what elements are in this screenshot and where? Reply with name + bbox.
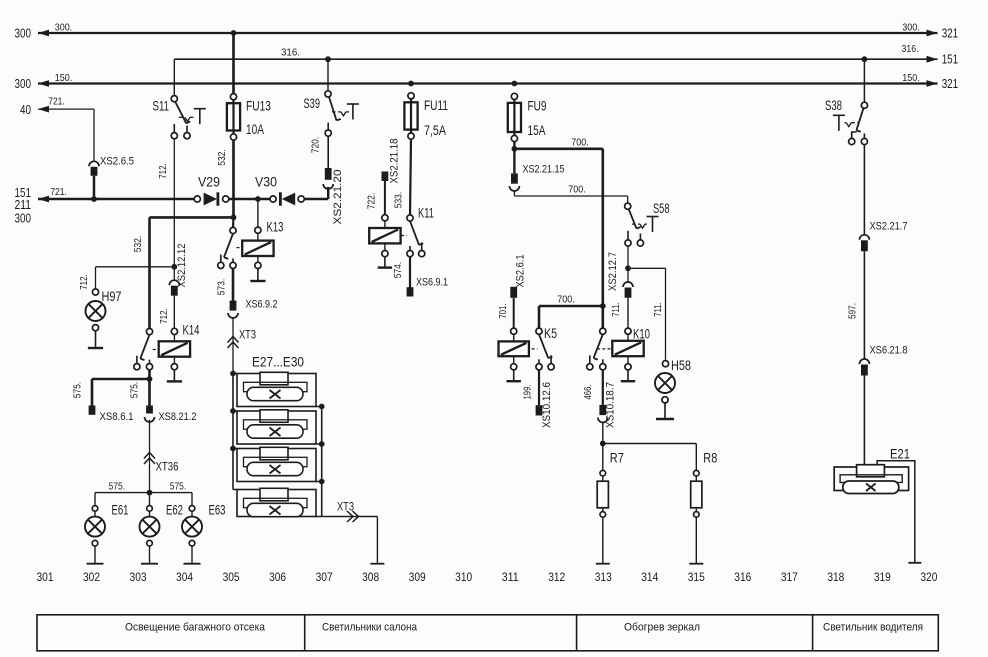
- switch S39 actuator link: [332, 112, 349, 116]
- connector XS2.21.7 socket: [859, 235, 869, 240]
- label XS2.21.7: [870, 221, 908, 233]
- connector XS2.6.1 pin: [510, 287, 517, 298]
- wire label 199.: [522, 385, 534, 400]
- svg-text:532.: 532.: [132, 236, 144, 253]
- ground K5: [507, 370, 521, 381]
- arrow left net 300: [38, 30, 49, 37]
- wire 711 to XS2.12.7: [627, 268, 629, 282]
- wire S11 stub to 316 bus: [173, 59, 175, 95]
- node junction 712/H97: [171, 264, 177, 270]
- ground K10: [621, 370, 635, 381]
- svg-text:300.: 300.: [55, 21, 73, 33]
- lamp unit E21: [834, 465, 908, 494]
- wire 722: [384, 181, 386, 215]
- switch S58 actuator T: [647, 217, 659, 233]
- arrow left net 151/211/300: [38, 196, 49, 203]
- label K5: [544, 326, 557, 341]
- switch S58: [625, 203, 644, 246]
- connector XS8.21.2 pin: [146, 406, 153, 414]
- arrow right net 151: [927, 56, 938, 63]
- wire K13 common feed: [232, 217, 235, 227]
- svg-text:K14: K14: [183, 323, 200, 338]
- svg-text:306: 306: [269, 570, 286, 584]
- wire label 466.: [582, 385, 594, 400]
- wire 711 to K10 coil: [627, 298, 629, 328]
- wire K11 coil bottom: [382, 244, 388, 257]
- connector XS6.9.2 socket: [228, 313, 238, 318]
- svg-text:XT3: XT3: [239, 329, 256, 341]
- wire 532 branch left: [150, 216, 234, 219]
- svg-text:XT36: XT36: [156, 462, 179, 474]
- svg-text:573.: 573.: [216, 279, 228, 296]
- net label 321 bottom right: [942, 76, 959, 91]
- wire 532 from 300 bus: [232, 33, 235, 94]
- svg-text:575.: 575.: [109, 481, 126, 493]
- node path number 304: [176, 570, 193, 584]
- wire 575 lamp row: [95, 492, 192, 494]
- svg-text:300: 300: [15, 76, 32, 91]
- wire to R8: [603, 444, 697, 471]
- svg-text:315: 315: [688, 570, 705, 584]
- terminal bar E62: [141, 563, 158, 565]
- svg-text:E61: E61: [112, 503, 129, 518]
- switch S38: [849, 102, 868, 144]
- node path number 309: [409, 570, 426, 584]
- wire 466: [602, 370, 604, 405]
- relay K11 coil: [369, 228, 400, 243]
- node path number 306: [269, 570, 286, 584]
- wire 597: [863, 251, 865, 359]
- switch S58 actuator link: [632, 224, 647, 228]
- wire 575 left branch: [92, 379, 150, 406]
- terminal bar E61: [87, 563, 104, 565]
- wire 700 to K10: [601, 306, 604, 328]
- wire 573: [232, 269, 235, 302]
- svg-text:199.: 199.: [522, 385, 534, 400]
- connector XS2.21.7 pin: [861, 240, 868, 251]
- label XS6.21.8: [870, 345, 908, 357]
- wire 532 below fuse: [232, 140, 235, 217]
- lamp E61: [85, 493, 105, 564]
- net label 300 bottom: [15, 211, 32, 226]
- label R8: [703, 451, 717, 466]
- wire S38 stub: [863, 59, 865, 102]
- terminal bar E63: [184, 563, 201, 565]
- wire 711 branch to H58: [628, 268, 666, 360]
- joint connector XT3 (upper): [228, 337, 239, 349]
- node junction left bus u3: [230, 446, 236, 452]
- wire label 700. first: [571, 136, 589, 148]
- svg-text:303: 303: [130, 570, 147, 584]
- node path number 310: [455, 570, 472, 584]
- node junction 711: [625, 265, 631, 271]
- label XS8.21.2: [159, 411, 197, 423]
- net label 211: [15, 197, 32, 212]
- svg-text:R7: R7: [610, 451, 624, 466]
- svg-text:300: 300: [15, 211, 32, 226]
- wire 574: [409, 257, 411, 288]
- fuse FU11: [404, 93, 417, 139]
- terminal bar R8: [689, 563, 703, 565]
- ground K14: [167, 370, 182, 382]
- svg-text:305: 305: [223, 570, 240, 584]
- node junction right bus u1: [319, 404, 325, 410]
- node path number 307: [316, 570, 333, 584]
- svg-text:712.: 712.: [157, 163, 169, 179]
- label FU13: [246, 98, 271, 113]
- label FU9: [528, 98, 547, 113]
- wire lamp block right bus: [321, 407, 323, 517]
- label V30: [255, 175, 277, 190]
- relay K10 contact: [587, 328, 606, 370]
- relay K13 contact: [218, 227, 236, 268]
- lamp E29 unit: [233, 447, 322, 481]
- label XT3 upper: [239, 329, 256, 341]
- connector XS2.21.20 pin: [325, 168, 332, 180]
- node path number 318: [827, 570, 844, 584]
- wire 722 pin: [382, 172, 389, 182]
- svg-text:310: 310: [455, 570, 472, 584]
- svg-text:Светильники салона: Светильники салона: [322, 622, 418, 634]
- node junction 700 lower: [600, 303, 606, 309]
- label H97: [102, 289, 122, 304]
- legend label luggage compartment lighting: [125, 622, 266, 634]
- svg-text:150.: 150.: [55, 72, 73, 84]
- svg-text:321: 321: [942, 25, 959, 40]
- svg-text:XT3: XT3: [337, 502, 354, 514]
- wire K11 coil top: [382, 215, 388, 228]
- connector XS10.18.7 socket: [598, 418, 608, 423]
- wire 712 from S11: [173, 139, 175, 267]
- wire 533: [410, 139, 411, 215]
- svg-text:FU9: FU9: [528, 98, 547, 113]
- svg-text:FU11: FU11: [424, 98, 448, 113]
- svg-text:721.: 721.: [48, 96, 65, 108]
- label H58: [671, 358, 691, 373]
- relay K14 mech link: [153, 349, 159, 351]
- wire label 711. right: [652, 302, 664, 317]
- connector XS2.21.20 socket: [323, 184, 333, 189]
- svg-text:E62: E62: [166, 503, 183, 518]
- fuse FU9: [508, 93, 521, 141]
- connector XS2.21.15 socket: [509, 186, 519, 191]
- svg-text:XS2.12.7: XS2.12.7: [607, 252, 619, 291]
- lamp E30 unit: [233, 488, 322, 516]
- svg-text:319: 319: [874, 570, 891, 584]
- legend table frame: [37, 615, 938, 651]
- svg-text:40: 40: [20, 102, 31, 117]
- net label 151 right: [942, 52, 959, 67]
- relay K13 mech link: [237, 247, 243, 249]
- joint connector XT36: [144, 453, 155, 465]
- net label 321 top right: [942, 25, 959, 40]
- svg-text:700.: 700.: [557, 294, 575, 306]
- label XT3 lower: [337, 502, 354, 514]
- arrow left net 40: [38, 106, 49, 113]
- svg-text:533.: 533.: [393, 192, 405, 209]
- ground K13: [250, 269, 265, 282]
- connector XS8.21.2 socket: [145, 417, 155, 422]
- connector XS10.12.6 pin: [536, 405, 543, 415]
- diode V30: [270, 192, 304, 205]
- wire segment V29-V30: [229, 198, 275, 200]
- wire label 701.: [497, 304, 509, 319]
- node junction 721/151-line: [91, 196, 97, 202]
- svg-text:FU13: FU13: [246, 98, 271, 113]
- node path number 303: [130, 570, 147, 584]
- wire K5 coil top: [511, 328, 517, 341]
- label S39: [304, 96, 321, 111]
- wire 700 branch 2: [514, 191, 627, 204]
- connector XS6.9.2 pin: [230, 301, 237, 311]
- label XS2.21.18: [388, 139, 400, 184]
- svg-text:K13: K13: [267, 219, 284, 234]
- node junction left bus u2: [230, 408, 236, 414]
- wire label 574.: [392, 262, 404, 279]
- svg-text:XS2.21.7: XS2.21.7: [870, 221, 908, 233]
- label XS2.12.12: [176, 244, 188, 288]
- relay K14 coil: [159, 341, 190, 356]
- label S58: [653, 201, 670, 216]
- switch S39 actuator T: [347, 104, 359, 120]
- svg-text:712.: 712.: [78, 274, 90, 290]
- label XS10.18.7: [605, 382, 617, 428]
- wire net 316 bus: [174, 58, 937, 60]
- joint connector XT3 (lower): [347, 511, 359, 522]
- connector XS6.21.8 socket: [859, 359, 869, 364]
- legend label driver lamp: [823, 622, 923, 634]
- svg-text:313: 313: [595, 570, 612, 584]
- node path number 315: [688, 570, 705, 584]
- wire label 300.: [55, 21, 73, 33]
- svg-text:318: 318: [827, 570, 844, 584]
- svg-text:H58: H58: [671, 358, 691, 373]
- svg-text:E63: E63: [209, 503, 226, 518]
- wire S39 stub to 316 bus: [327, 59, 329, 91]
- node path number 314: [641, 570, 658, 584]
- svg-text:309: 309: [409, 570, 426, 584]
- wire 720 vertical to XS2.21.20: [327, 187, 329, 199]
- svg-text:311: 311: [502, 570, 519, 584]
- svg-text:711.: 711.: [652, 302, 664, 317]
- svg-text:XS2.12.12: XS2.12.12: [176, 244, 188, 288]
- svg-text:700.: 700.: [571, 136, 589, 148]
- svg-text:532.: 532.: [216, 149, 228, 166]
- lamp E63: [182, 493, 202, 564]
- wire S58 down: [627, 246, 629, 268]
- connector XS2.12.12 socket: [169, 280, 179, 285]
- wire label 300. right: [902, 21, 920, 33]
- relay K5 contact: [536, 328, 554, 370]
- relay K11 mech link: [401, 235, 407, 237]
- switch S11 actuator link: [179, 117, 194, 121]
- wire XT3 output: [322, 517, 378, 564]
- wire 575 down: [148, 379, 151, 406]
- wire label 700. third: [557, 294, 575, 306]
- wire 700 branch 3: [539, 306, 603, 328]
- svg-text:Освещение багажного отсека: Освещение багажного отсека: [125, 622, 266, 634]
- wire label 532. left branch: [132, 236, 144, 253]
- relay K10 mech link: [597, 348, 610, 350]
- label XS6.9.1: [416, 277, 448, 289]
- wire label 533.: [393, 192, 405, 209]
- switch S11 actuator T: [194, 109, 206, 125]
- label XS6.9.2: [246, 298, 278, 310]
- wire label 711. left: [610, 302, 622, 317]
- legend label cabin lights: [322, 622, 418, 634]
- connector XS2.12.7 socket: [623, 282, 633, 287]
- svg-text:XS10.12.6: XS10.12.6: [541, 382, 553, 428]
- svg-text:7,5A: 7,5A: [424, 123, 446, 138]
- wire 199: [538, 370, 540, 405]
- node junction 316-bus / S38: [862, 56, 868, 62]
- svg-text:K5: K5: [544, 326, 557, 341]
- wire K10 coil top: [625, 328, 631, 341]
- node junction 316-bus / S39: [325, 56, 331, 62]
- node path number 316: [734, 570, 751, 584]
- wire K14 coil top: [171, 328, 177, 341]
- label XS2.21.20: [332, 170, 344, 225]
- arrow right net 321 top: [927, 30, 938, 37]
- wire label 712. at H97: [78, 274, 90, 290]
- wire to XT3: [232, 317, 234, 373]
- svg-text:H97: H97: [102, 289, 122, 304]
- ground H58: [656, 403, 674, 419]
- wire K10 coil bottom: [625, 356, 631, 370]
- label XS10.12.6: [541, 382, 553, 428]
- net label 300 left: [15, 25, 32, 40]
- value label 7,5A: [424, 123, 446, 138]
- node junction 575: [147, 376, 153, 382]
- wire label 722.: [365, 193, 377, 210]
- svg-text:S38: S38: [825, 98, 842, 113]
- legend label mirror heating: [624, 622, 700, 634]
- fuse FU13: [227, 94, 240, 140]
- terminal bar R7: [596, 563, 610, 565]
- svg-text:712.: 712.: [158, 308, 170, 324]
- node path number 301: [37, 570, 54, 584]
- label XS2.6.1: [514, 255, 526, 288]
- wire label 575. mid: [129, 382, 141, 399]
- label K11: [418, 206, 434, 221]
- wire label 720.: [310, 137, 322, 154]
- wire segment V30 to corner: [304, 198, 328, 200]
- wire K13 coil feed: [255, 199, 261, 240]
- label E27...E30: [252, 354, 304, 369]
- svg-text:Обогрев зеркал: Обогрев зеркал: [624, 622, 700, 634]
- svg-text:S11: S11: [153, 99, 170, 114]
- node path number 319: [874, 570, 891, 584]
- connector XS6.21.8 pin: [861, 365, 868, 376]
- wire 597 upper: [863, 145, 865, 235]
- label E63: [209, 503, 226, 518]
- svg-text:466.: 466.: [582, 385, 594, 400]
- svg-text:K11: K11: [418, 206, 434, 221]
- wire net 150 bus: [38, 82, 938, 84]
- node path number 312: [548, 570, 565, 584]
- node junction right bus u3: [319, 479, 325, 485]
- label XS2.21.15: [523, 164, 565, 176]
- svg-text:S58: S58: [653, 201, 670, 216]
- resistor R8: [691, 470, 702, 563]
- svg-text:312: 312: [548, 570, 565, 584]
- connector XS8.6.1 pin: [89, 406, 96, 415]
- wire FU9 to junction: [513, 142, 515, 174]
- svg-text:XS8.21.2: XS8.21.2: [159, 411, 197, 423]
- lamp H58: [655, 361, 675, 403]
- resistor R7: [597, 470, 608, 563]
- wire 721 thick to 151-line: [93, 176, 96, 199]
- wire 40-line: [38, 108, 94, 110]
- svg-text:V29: V29: [198, 175, 220, 190]
- lamp H97: [86, 289, 106, 331]
- wire 721 drop from 40-line: [93, 109, 95, 161]
- svg-text:XS6.9.1: XS6.9.1: [416, 277, 448, 289]
- wire 720 pin to S39: [327, 136, 329, 168]
- wire label 316. right: [902, 43, 919, 55]
- value label 10A: [246, 122, 264, 137]
- wire 701: [513, 298, 515, 328]
- node path number 302: [83, 570, 100, 584]
- svg-text:R8: R8: [703, 451, 717, 466]
- node junction 150-bus / FU9: [512, 81, 518, 87]
- svg-text:E27...E30: E27...E30: [252, 354, 304, 369]
- terminal bar 308: [370, 563, 384, 565]
- connector XS2.6.5 pin: [91, 167, 98, 176]
- label S38: [825, 98, 842, 113]
- svg-text:307: 307: [316, 570, 333, 584]
- relay K13 coil: [242, 241, 273, 256]
- arrow left net 300 (150 line): [38, 80, 49, 87]
- lamp E27 unit: [233, 372, 322, 406]
- net label 300 left lower: [15, 76, 32, 91]
- label XS2.6.5: [100, 155, 134, 167]
- node junction 700: [512, 146, 518, 152]
- wire label 532. upper: [216, 149, 228, 166]
- svg-text:308: 308: [362, 570, 379, 584]
- wire 721 segment left: [38, 198, 197, 200]
- switch S39: [325, 91, 341, 136]
- wire label 575. row left: [109, 481, 126, 493]
- lamp E28 unit: [233, 410, 322, 444]
- connector XS2.21.15 pin: [511, 173, 518, 183]
- wire K13 coil bottom: [255, 256, 261, 269]
- svg-text:575.: 575.: [129, 382, 141, 399]
- connector XS2.12.7 pin: [625, 288, 632, 298]
- svg-text:575.: 575.: [71, 382, 83, 399]
- node junction R7/R8: [600, 441, 606, 447]
- node junction K13 coil branch: [255, 196, 261, 202]
- svg-text:E21: E21: [890, 447, 910, 462]
- wire label 721. upper: [48, 96, 65, 108]
- svg-text:711.: 711.: [610, 302, 622, 317]
- node path number 311: [502, 570, 519, 584]
- net label 40: [20, 102, 31, 117]
- node path number 313: [595, 570, 612, 584]
- connector XS10.18.7 pin: [599, 405, 606, 415]
- wire net 300 top bus: [38, 32, 938, 34]
- switch S38 actuator link: [845, 123, 860, 127]
- wire to E21: [863, 376, 865, 466]
- label S11: [153, 99, 170, 114]
- connector XS2.12.12 pin: [171, 286, 178, 296]
- svg-text:15A: 15A: [528, 123, 546, 138]
- svg-text:316.: 316.: [902, 43, 919, 55]
- svg-text:720.: 720.: [310, 137, 322, 154]
- svg-text:304: 304: [176, 570, 193, 584]
- node path number 317: [781, 570, 798, 584]
- wire 575 from K14: [148, 370, 151, 379]
